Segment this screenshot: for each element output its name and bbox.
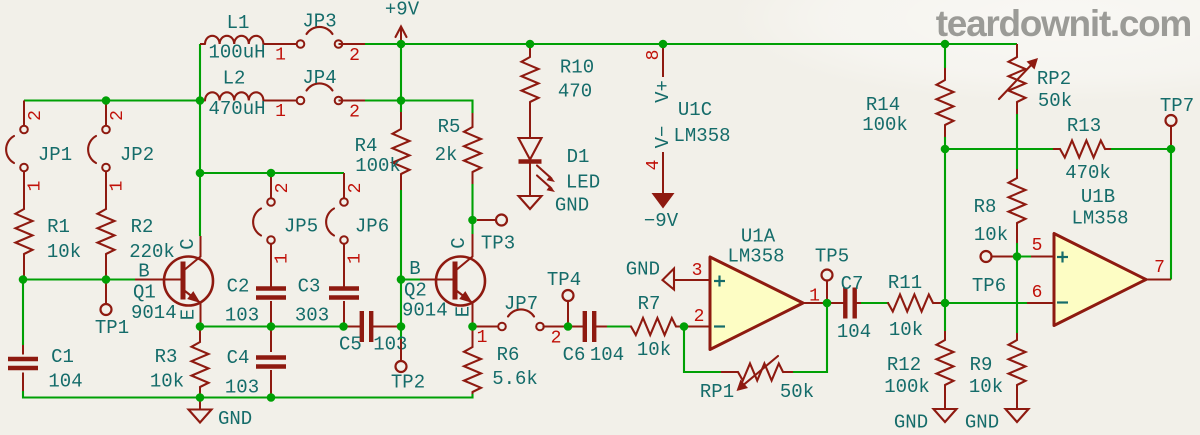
svg-text:R5: R5 [438,116,461,138]
wire +9V to R4 [400,44,402,112]
svg-text:C: C [448,237,470,248]
wire JP4-2 to R5 top [365,101,473,114]
test point TP5 [815,246,849,304]
inductor L2 [200,68,297,121]
wire node x200 vertical [199,44,201,236]
svg-text:R13: R13 [1067,115,1101,137]
svg-text:TP6: TP6 [972,275,1006,297]
wire TP6 to pin5 [1013,255,1031,257]
svg-text:R14: R14 [866,94,900,116]
svg-text:1: 1 [477,328,488,348]
jumper JP5 [253,173,318,287]
wire Q1 base [23,278,135,280]
svg-text:TP4: TP4 [547,269,581,291]
svg-text:Q1: Q1 [133,282,156,304]
svg-text:2: 2 [551,329,562,349]
test point TP4 [547,269,581,327]
svg-text:9014: 9014 [402,300,448,322]
test point TP7 [1160,95,1194,149]
svg-text:R10: R10 [560,57,594,79]
svg-text:5: 5 [1032,236,1043,256]
svg-text:1: 1 [346,253,366,264]
svg-text:C3: C3 [298,276,321,298]
wire bottom rail [23,391,473,398]
svg-text:GND: GND [626,259,660,281]
resistor R12 [884,331,953,409]
transistor Q2 [402,234,485,327]
svg-text:220k: 220k [129,241,175,263]
svg-text:2: 2 [346,183,366,194]
wire C1 column [22,280,24,346]
svg-text:LM358: LM358 [673,125,730,147]
svg-text:2: 2 [349,103,360,123]
power flag -9V U1C pin4 [644,152,679,232]
svg-text:104: 104 [590,344,624,366]
wire x945 to R12 [944,303,946,331]
svg-text:1: 1 [26,181,46,192]
svg-text:JP6: JP6 [355,216,389,238]
svg-text:1: 1 [273,253,293,264]
svg-text:C: C [177,238,199,249]
wire R13 left [945,148,1053,150]
svg-text:teardownit.com: teardownit.com [936,3,1191,44]
svg-text:U1A: U1A [741,226,776,248]
wire row y173 [200,172,344,174]
svg-text:104: 104 [48,371,82,393]
resistor R6 [464,327,538,395]
svg-text:U1B: U1B [1081,186,1115,208]
svg-text:D1: D1 [567,146,590,168]
svg-text:C1: C1 [51,346,74,368]
svg-text:10k: 10k [969,376,1003,398]
wire R5 to TP3 node [471,184,473,234]
svg-text:RP1: RP1 [700,381,734,403]
svg-text:C7: C7 [841,273,864,295]
svg-text:100uH: 100uH [208,42,265,64]
svg-text:TP5: TP5 [815,246,849,268]
resistor R8 [974,169,1026,246]
svg-text:50k: 50k [1038,90,1072,112]
svg-text:LED: LED [566,172,600,194]
jumper JP6 [326,173,389,287]
svg-text:R9: R9 [970,354,993,376]
test point TP1 [95,282,129,340]
svg-text:470k: 470k [1065,162,1111,184]
test point TP6 [972,251,1013,297]
svg-text:470: 470 [558,81,592,103]
jumper JP7 [477,293,565,349]
svg-text:R8: R8 [974,196,997,218]
wire x945 top [944,44,946,68]
svg-text:R3: R3 [155,346,178,368]
svg-text:B: B [138,261,149,283]
svg-text:8: 8 [644,50,664,61]
op-amp U1C power pins LM358 [644,44,731,170]
svg-text:10k: 10k [47,241,81,263]
wire output U1B right edge [1170,149,1172,280]
capacitor C4 [225,327,286,399]
svg-text:2: 2 [349,46,360,66]
wire junctions [397,40,406,49]
svg-text:303: 303 [295,305,329,327]
svg-text:GND: GND [894,412,928,434]
wire x945 middle [944,137,946,303]
wire +9V top rail [363,43,1017,45]
svg-text:100k: 100k [355,155,401,177]
jumper JP3 [275,11,365,67]
wire R8 to pin5 [1016,243,1018,257]
svg-text:1: 1 [108,181,128,192]
wire RP2 to R8 [1016,114,1018,169]
svg-text:10k: 10k [150,371,184,393]
svg-text:10k: 10k [974,224,1008,246]
svg-text:C5 103: C5 103 [339,334,407,356]
svg-text:JP4: JP4 [302,67,336,89]
ground below R12 [894,409,957,434]
svg-text:5.6k: 5.6k [492,368,538,390]
svg-text:R12: R12 [887,354,921,376]
capacitor C2 [225,276,286,327]
svg-text:103: 103 [225,305,259,327]
wire emitter row Q1 [200,325,346,327]
wire R4 to Q2 base node [400,190,402,339]
wire R13 right [1111,148,1171,150]
wire C6 to R7 [607,325,630,327]
svg-text:RP2: RP2 [1037,68,1071,90]
capacitor C6 [563,311,625,366]
svg-text:E: E [178,309,200,320]
svg-text:GND: GND [555,195,589,217]
svg-text:L2: L2 [223,68,246,90]
svg-text:1: 1 [809,287,820,307]
svg-text:104: 104 [837,321,871,343]
resistor R1 [16,209,82,277]
capacitor C1 [8,345,83,393]
wire U1A feedback left [684,327,721,373]
resistor R2 [98,209,175,277]
capacitor C7 [829,273,871,343]
svg-text:103: 103 [225,377,259,399]
svg-text:TP3: TP3 [481,233,515,255]
ground below R9 [965,409,1029,434]
svg-text:50k: 50k [780,381,814,403]
svg-text:JP2: JP2 [120,144,154,166]
svg-text:TP7: TP7 [1160,95,1194,117]
svg-text:L1: L1 [227,12,250,34]
power flag +9V [385,0,420,44]
svg-text:2: 2 [694,307,705,327]
svg-text:100k: 100k [862,114,908,136]
svg-text:10k: 10k [889,319,923,341]
resistor R13 [1053,115,1111,184]
resistor R10 [522,44,595,138]
svg-text:V−: V− [652,126,674,149]
svg-text:2: 2 [108,110,128,121]
svg-text:Q2: Q2 [404,280,427,302]
capacitor C5 [339,311,407,356]
svg-text:6: 6 [1032,283,1043,303]
resistor R4 [355,112,410,190]
svg-text:GND: GND [218,408,252,430]
svg-text:TP1: TP1 [95,317,129,339]
ground below R3 [189,398,253,431]
wire Q2 base [401,278,420,280]
svg-text:470uH: 470uH [208,98,265,120]
resistor R7 [630,293,710,361]
svg-text:JP5: JP5 [284,216,318,238]
resistor R14 [862,68,953,137]
svg-text:−9V: −9V [644,210,679,232]
potentiometer RP2 [999,44,1072,114]
jumper JP2 [88,101,154,210]
svg-text:9014: 9014 [131,302,177,324]
svg-text:TP2: TP2 [391,372,425,394]
global label GND at U1A pin3 [626,259,674,290]
svg-text:C4: C4 [227,347,250,369]
wire row2 left [24,99,200,101]
svg-text:C2: C2 [227,276,250,298]
test point TP2 [391,339,425,394]
test point TP3 [477,215,515,255]
capacitor C3 [295,276,359,327]
svg-text:R11: R11 [888,272,922,294]
svg-text:R2: R2 [131,216,154,238]
wire U1A feedback right [793,303,827,372]
wire pin6 row [945,302,1027,304]
svg-text:R1: R1 [47,216,70,238]
svg-text:C6: C6 [563,344,586,366]
ground below D1 [519,195,590,217]
svg-text:R4: R4 [355,135,378,157]
svg-text:1: 1 [275,102,286,122]
svg-text:4: 4 [644,160,664,171]
jumper JP1 [6,101,72,210]
resistor R9 [969,333,1026,409]
svg-text:7: 7 [1154,258,1165,278]
svg-text:10k: 10k [637,339,671,361]
svg-text:R7: R7 [638,293,661,315]
svg-text:R6: R6 [497,344,520,366]
svg-text:B: B [409,258,420,280]
op-amp U1A LM358 [674,226,827,350]
potentiometer RP1 [700,356,814,403]
transistor Q1 [131,236,213,327]
wire pin5 node to R9 [1016,257,1018,334]
svg-text:U1C: U1C [678,99,712,121]
svg-text:JP7: JP7 [504,293,538,315]
resistor R5 [435,113,481,184]
svg-text:3: 3 [692,261,703,281]
svg-text:2k: 2k [435,144,458,166]
inductor L1 [200,12,297,64]
svg-text:LM358: LM358 [727,246,784,268]
svg-text:LM358: LM358 [1071,208,1128,230]
svg-text:E: E [453,306,475,317]
svg-text:100k: 100k [884,376,930,398]
svg-text:JP3: JP3 [302,11,336,33]
svg-text:+9V: +9V [385,0,420,21]
svg-text:1: 1 [275,46,286,66]
svg-text:2: 2 [26,110,46,121]
svg-text:V+: V+ [652,80,674,103]
wire C7 to R11 [861,302,889,304]
LED D1 [519,138,601,196]
svg-text:GND: GND [965,412,999,434]
op-amp U1B LM358 [1027,186,1171,326]
resistor R3 [150,328,209,398]
jumper JP4 [275,67,365,123]
svg-text:JP1: JP1 [38,144,72,166]
resistor R11 [888,272,943,341]
svg-text:2: 2 [273,183,293,194]
